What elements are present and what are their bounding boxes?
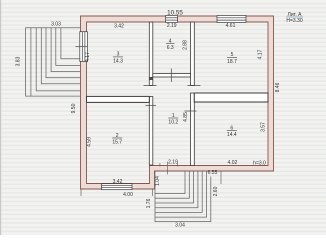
svg-text:14.3: 14.3 xyxy=(113,58,123,64)
svg-text:3.42: 3.42 xyxy=(114,23,124,29)
svg-text:3.03: 3.03 xyxy=(51,22,61,28)
extension line near corridor door xyxy=(167,162,169,175)
svg-text:Н=3.30: Н=3.30 xyxy=(286,18,302,24)
room 6 label xyxy=(227,125,237,138)
corridor right wall lower xyxy=(191,93,195,166)
room 4 label xyxy=(166,38,174,51)
wall between room 5 and room 6 xyxy=(194,93,268,102)
svg-text:10.2: 10.2 xyxy=(168,120,178,126)
window top wall (room 5) xyxy=(217,16,246,23)
svg-text:4.17: 4.17 xyxy=(258,49,264,59)
svg-text:9.50: 9.50 xyxy=(71,103,77,113)
svg-text:2.19: 2.19 xyxy=(167,23,177,29)
svg-text:4.17: 4.17 xyxy=(85,52,91,62)
wall between room 3 and room 2 xyxy=(87,96,150,102)
page left edge shadow xyxy=(0,0,1,235)
svg-text:4.85: 4.85 xyxy=(183,112,189,122)
svg-text:18.7: 18.7 xyxy=(227,59,237,65)
svg-text:6.3: 6.3 xyxy=(167,45,174,51)
room 2 label xyxy=(112,133,122,146)
exterior wall band fill xyxy=(81,16,274,189)
wall junction mark xyxy=(150,77,153,80)
svg-text:h=3.0: h=3.0 xyxy=(253,160,266,166)
svg-text:3.83: 3.83 xyxy=(16,56,22,66)
door jamb tick left (room 3) xyxy=(144,85,157,87)
svg-text:10.55: 10.55 xyxy=(167,9,183,16)
svg-text:4.02: 4.02 xyxy=(228,160,238,166)
svg-text:1.04: 1.04 xyxy=(155,176,161,186)
svg-text:14.4: 14.4 xyxy=(227,132,237,138)
svg-text:8.46: 8.46 xyxy=(275,82,281,92)
window bottom wall (room 2) xyxy=(102,184,132,190)
room 5 label xyxy=(227,52,237,65)
extension tick 2.19 right xyxy=(177,163,179,167)
exterior wall outer outline xyxy=(81,16,274,189)
svg-text:1.76: 1.76 xyxy=(146,198,152,208)
svg-text:6.55: 6.55 xyxy=(208,170,218,176)
room 3 label xyxy=(113,52,123,65)
svg-text:4.61: 4.61 xyxy=(226,23,236,29)
room 1 label xyxy=(168,113,178,126)
window tick left xyxy=(76,46,88,48)
bottom porch stairs xyxy=(155,171,211,221)
Lit A annotation xyxy=(286,12,303,24)
svg-text:3.42: 3.42 xyxy=(113,179,123,185)
svg-text:3.57: 3.57 xyxy=(260,122,266,132)
corridor left wall lower xyxy=(149,97,153,166)
svg-text:2.88: 2.88 xyxy=(183,40,189,50)
extension tick 4.00 left xyxy=(80,190,82,197)
window top wall (room 4) xyxy=(166,16,178,23)
svg-text:2.60: 2.60 xyxy=(213,186,219,196)
svg-text:15.7: 15.7 xyxy=(112,140,122,146)
window left wall (room 3) xyxy=(80,32,88,62)
svg-text:4.00: 4.00 xyxy=(123,192,133,198)
svg-text:3.04: 3.04 xyxy=(175,223,185,229)
door jamb tick right (room 5) xyxy=(188,85,201,87)
door jamb tick (room 6) xyxy=(185,110,197,112)
left porch stairs xyxy=(26,28,81,96)
room 4 door leaf xyxy=(170,69,172,83)
extension tick 4.00 right xyxy=(152,190,154,197)
extension line right of bottom stairs xyxy=(220,171,222,184)
extension tick 2.19 left xyxy=(159,163,161,167)
door jamb tick (room 2) xyxy=(146,104,157,106)
svg-text:4.59: 4.59 xyxy=(87,137,93,147)
corridor right wall upper xyxy=(191,22,195,86)
exterior wall inner outline xyxy=(87,22,269,184)
corridor left wall upper xyxy=(149,22,153,86)
svg-text:2.19: 2.19 xyxy=(168,160,178,166)
room 4 bottom wall xyxy=(153,74,191,78)
